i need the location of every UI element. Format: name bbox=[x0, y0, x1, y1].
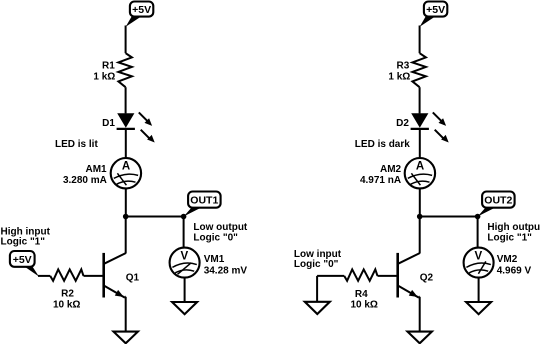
svg-text:34.28 mV: 34.28 mV bbox=[204, 265, 248, 276]
ground (below Q1 emitter) bbox=[114, 332, 138, 344]
wire collector node to Q2 collector bbox=[419, 217, 421, 254]
LED D1 bbox=[117, 113, 135, 129]
svg-text:10 kΩ: 10 kΩ bbox=[350, 299, 377, 310]
wire AM2 to collector node bbox=[419, 188, 421, 216]
wire Q1 emitter to ground bbox=[124, 296, 127, 298]
svg-text:+5V: +5V bbox=[13, 254, 32, 266]
wire VM2 to ground bbox=[478, 278, 480, 302]
wire input ground to R4 bbox=[317, 275, 344, 277]
resistor R3 bbox=[412, 53, 426, 87]
wire OUT1 node to VM1 bbox=[183, 217, 185, 249]
wire R2 to Q1 base bbox=[84, 275, 103, 277]
wire collector node to Q1 collector bbox=[125, 217, 127, 254]
svg-text:4.971 nA: 4.971 nA bbox=[360, 175, 401, 186]
svg-text:+5V: +5V bbox=[426, 4, 445, 16]
wire Q2 emitter to ground bbox=[418, 296, 421, 298]
LED D2 light arrows bbox=[433, 112, 449, 142]
power +5V (top of right circuit) bbox=[420, 2, 448, 27]
svg-text:Logic "1": Logic "1" bbox=[1, 237, 46, 248]
junction node (Q2 collector / OUT2) bbox=[417, 214, 423, 220]
svg-text:Q2: Q2 bbox=[420, 273, 434, 284]
svg-text:3.280 mA: 3.280 mA bbox=[63, 175, 107, 186]
svg-text:AM2: AM2 bbox=[380, 164, 402, 175]
node OUT2 flag bbox=[478, 192, 515, 217]
ground (input of right circuit) bbox=[305, 302, 330, 314]
svg-text:R1: R1 bbox=[102, 61, 115, 72]
wire OUT2 node to VM2 bbox=[477, 217, 479, 249]
svg-text:AM1: AM1 bbox=[85, 164, 107, 175]
svg-text:1 kΩ: 1 kΩ bbox=[388, 71, 410, 82]
wire D2 to AM2 bbox=[419, 129, 421, 158]
svg-text:A: A bbox=[416, 161, 424, 173]
resistor R1 bbox=[118, 53, 131, 87]
svg-text:Logic "1": Logic "1" bbox=[487, 232, 532, 243]
svg-text:D1: D1 bbox=[102, 118, 115, 129]
voltmeter VM1 bbox=[170, 248, 200, 278]
svg-text:1 kΩ: 1 kΩ bbox=[93, 71, 115, 82]
voltmeter VM2 bbox=[464, 248, 494, 278]
svg-text:4.969 V: 4.969 V bbox=[497, 265, 532, 276]
svg-text:V: V bbox=[474, 250, 482, 262]
wire collector node to OUT1 node bbox=[126, 216, 184, 218]
ground (below VM2) bbox=[466, 302, 491, 314]
svg-text:R2: R2 bbox=[61, 288, 74, 299]
wire D1 to AM1 bbox=[125, 129, 127, 158]
junction node (Q1 collector / OUT1) bbox=[123, 214, 129, 220]
resistor R4 bbox=[344, 269, 377, 280]
transistor Q1 bbox=[104, 253, 126, 298]
wire R4 to Q2 base bbox=[378, 275, 397, 277]
wire R1 to D1 bbox=[125, 87, 127, 113]
svg-text:D2: D2 bbox=[396, 118, 409, 129]
LED D1 light arrows bbox=[139, 112, 155, 142]
svg-text:10 kΩ: 10 kΩ bbox=[53, 299, 80, 310]
svg-text:VM2: VM2 bbox=[497, 254, 518, 265]
power +5V (top of left circuit) bbox=[126, 2, 154, 27]
svg-text:A: A bbox=[122, 161, 130, 173]
svg-text:R3: R3 bbox=[397, 61, 410, 72]
svg-text:LED is dark: LED is dark bbox=[355, 139, 410, 150]
svg-text:LED is lit: LED is lit bbox=[55, 139, 98, 150]
svg-text:R4: R4 bbox=[355, 289, 368, 300]
wire R3 to D2 bbox=[419, 87, 421, 113]
node OUT1 flag bbox=[184, 192, 221, 217]
svg-text:Logic "0": Logic "0" bbox=[193, 232, 238, 243]
svg-text:VM1: VM1 bbox=[204, 254, 225, 265]
ground (below Q2 emitter) bbox=[408, 332, 432, 344]
ground (below VM1) bbox=[172, 302, 197, 314]
svg-text:V: V bbox=[180, 250, 188, 262]
wire AM1 to collector node bbox=[125, 188, 127, 216]
resistor R2 bbox=[50, 269, 83, 280]
svg-text:+5V: +5V bbox=[132, 4, 151, 16]
wire stub to input ground bbox=[316, 276, 318, 302]
wire VM1 to ground bbox=[184, 278, 186, 302]
wire +5V input to R2 bbox=[38, 275, 50, 277]
wire collector node to OUT2 node bbox=[420, 216, 478, 218]
ammeter AM1 bbox=[111, 158, 141, 188]
svg-text:Low output: Low output bbox=[193, 222, 248, 233]
svg-text:OUT1: OUT1 bbox=[190, 194, 218, 206]
svg-text:OUT2: OUT2 bbox=[484, 194, 512, 206]
wire +5V to R3 bbox=[419, 26, 421, 54]
svg-text:Q1: Q1 bbox=[126, 273, 140, 284]
power +5V (input of left circuit) bbox=[10, 251, 39, 277]
junction node OUT2 bbox=[475, 214, 481, 220]
svg-text:Logic "0": Logic "0" bbox=[294, 259, 339, 270]
junction node OUT1 bbox=[181, 214, 187, 220]
LED D2 bbox=[411, 113, 429, 129]
ammeter AM2 bbox=[405, 158, 435, 188]
svg-text:High output: High output bbox=[487, 222, 540, 233]
wire +5V to R1 bbox=[125, 26, 127, 54]
transistor Q2 bbox=[398, 253, 420, 298]
